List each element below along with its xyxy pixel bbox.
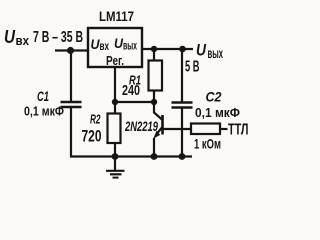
svg-text:ТТЛ: ТТЛ — [228, 122, 249, 139]
svg-text:LM117: LM117 — [99, 8, 134, 24]
svg-text:240: 240 — [122, 82, 140, 99]
svg-text:U: U — [196, 41, 207, 60]
svg-text:7 В – 35 В: 7 В – 35 В — [33, 29, 83, 46]
svg-text:U: U — [4, 27, 16, 47]
svg-text:5 В: 5 В — [185, 59, 200, 76]
svg-text:720: 720 — [82, 127, 102, 146]
svg-text:R2: R2 — [90, 112, 101, 127]
svg-text:0,1 мкФ: 0,1 мкФ — [195, 105, 240, 120]
svg-text:C2: C2 — [206, 89, 222, 105]
svg-text:C1: C1 — [37, 88, 49, 104]
svg-text:2N2219: 2N2219 — [124, 118, 158, 134]
svg-text:вх: вх — [100, 39, 110, 53]
svg-text:вых: вых — [123, 39, 137, 53]
svg-text:0,1 мкФ: 0,1 мкФ — [24, 104, 64, 119]
svg-text:Рег.: Рег. — [106, 53, 124, 68]
svg-text:вх: вх — [16, 33, 30, 48]
svg-text:1 кОм: 1 кОм — [194, 136, 221, 152]
svg-text:вых: вых — [208, 45, 224, 61]
